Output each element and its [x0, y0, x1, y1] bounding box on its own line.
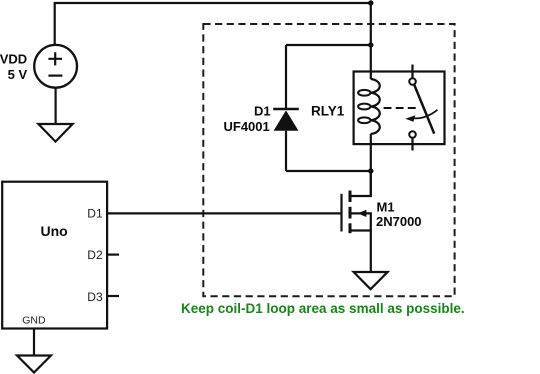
wire Uno D1 to mosfet gate: [107, 212, 341, 214]
svg-text:M1: M1: [377, 199, 395, 214]
mosfet M1 body lead: [351, 213, 371, 230]
mosfet M1 body arrowhead: [358, 210, 367, 217]
relay coil bottom stub: [370, 134, 372, 171]
wire VDD to ground: [54, 88, 56, 124]
wire relay to mosfet drain: [370, 171, 372, 196]
relay RLY1 box: [354, 72, 445, 145]
mosfet M1 drain lead: [351, 171, 371, 196]
relay coil loop ellipse 2: [358, 104, 370, 110]
mosfet M1 source lead: [351, 231, 371, 273]
svg-text:GND: GND: [22, 314, 46, 326]
relay switch actuation arrowhead: [405, 115, 415, 122]
Uno box: [2, 182, 107, 329]
relay switch top contact circle: [409, 78, 416, 85]
wire vertical main branch x=371 top: [370, 3, 372, 72]
relay coil humps: [371, 79, 380, 134]
voltage source plus sign: [48, 52, 62, 65]
diode D1 wire anode top: [285, 45, 287, 108]
pin stub D2: [107, 254, 119, 256]
wire Uno GND pin: [33, 329, 35, 356]
svg-text:5 V: 5 V: [8, 67, 28, 82]
relay switch blade: [414, 85, 434, 134]
svg-text:RLY1: RLY1: [311, 104, 345, 119]
relay switch bottom contact circle: [409, 131, 416, 138]
wire diode bottom horizontal: [286, 170, 371, 172]
pin stub D3: [107, 295, 119, 297]
ground under VDD: [38, 124, 72, 142]
relay switch bottom pin: [411, 138, 413, 151]
svg-text:D1: D1: [87, 206, 103, 220]
node junction diode top: [368, 42, 373, 47]
relay switch actuation arrow arc: [413, 110, 438, 119]
svg-text:Keep coil-D1 loop area as smal: Keep coil-D1 loop area as small as possi…: [181, 301, 465, 316]
mosfet M1 channel segment bottom: [349, 223, 352, 233]
voltage source minus sign: [48, 74, 62, 76]
svg-text:UF4001: UF4001: [224, 119, 270, 134]
relay switch top pin: [411, 65, 413, 79]
wire top rail VDD to relay: [55, 3, 371, 45]
node junction top rail: [368, 0, 373, 5]
node junction diode bottom: [368, 168, 373, 173]
ground under Uno: [17, 356, 51, 373]
relay coil top stub: [370, 72, 372, 80]
svg-text:D3: D3: [87, 290, 103, 304]
diode D1 triangle: [274, 110, 299, 130]
svg-text:D2: D2: [87, 248, 103, 262]
relay coil loop ellipse 1: [358, 90, 370, 96]
mosfet M1 channel segment middle: [349, 207, 352, 219]
ground under mosfet: [354, 272, 388, 289]
svg-text:2N7000: 2N7000: [376, 214, 422, 229]
svg-text:D1: D1: [254, 103, 271, 118]
svg-text:Uno: Uno: [41, 223, 68, 239]
relay actuation dashed link: [384, 107, 416, 109]
relay coil loop ellipse 3: [358, 117, 370, 123]
dashed keepout box: [203, 24, 454, 296]
wire diode top horizontal: [286, 44, 371, 46]
svg-text:VDD: VDD: [0, 52, 27, 67]
mosfet M1 gate bar: [340, 194, 342, 232]
diode D1 cathode bar: [273, 108, 299, 110]
diode D1 wire bottom: [285, 131, 287, 171]
voltage source V1 circle: [34, 45, 77, 88]
mosfet M1 channel segment top: [349, 191, 352, 203]
